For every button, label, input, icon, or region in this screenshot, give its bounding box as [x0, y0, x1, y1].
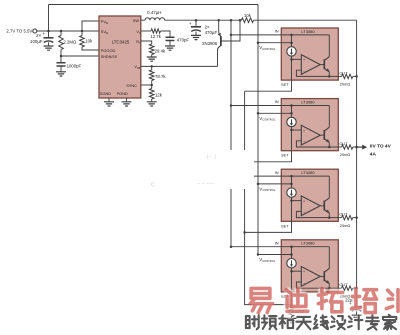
- wire VFB sense line: [141, 65, 218, 67]
- svg-text:LT3080: LT3080: [301, 241, 315, 246]
- wire erased region (white patch): [174, 150, 255, 189]
- svg-text:470µF: 470µF: [205, 30, 218, 35]
- wire SHDN/SS line: [60, 55, 63, 58]
- svg-text:SHDN/SS: SHDN/SS: [101, 55, 118, 59]
- wire IN rail (collector rail): [230, 20, 232, 245]
- wire PGND stub: [126, 98, 128, 102]
- wire VIN input line to IC SVIN: [37, 30, 99, 32]
- svg-text:LT3080: LT3080: [301, 100, 315, 105]
- capacitor C3 2x 470uF boost output: [195, 20, 197, 27]
- wire PVIN jog: [82, 21, 99, 31]
- svg-text:SET: SET: [281, 82, 289, 87]
- resistor R7 10k: [241, 18, 253, 23]
- resistor R5 78.7k divider top: [151, 66, 153, 70]
- wire riser from input node to top rail: [48, 5, 50, 32]
- node divider mid: [150, 84, 153, 87]
- svg-text:IN: IN: [106, 21, 109, 25]
- svg-text:CONTROL: CONTROL: [262, 118, 276, 122]
- wire VC pin line: [141, 30, 151, 32]
- svg-text:SET: SET: [281, 153, 289, 158]
- wire boost line to VOUT rail top: [254, 19, 357, 21]
- node collector rail tap: [230, 19, 233, 22]
- resistor R6 12k divider bottom: [151, 85, 153, 89]
- svg-text:–: –: [303, 281, 305, 285]
- inductor L1 0.47uH: [145, 18, 165, 20]
- ground PGND: [122, 102, 132, 106]
- node output cap junction: [195, 19, 198, 22]
- op-amp U5 LT3080 regulator block: [230, 240, 358, 305]
- label watermark gray 射频和天线设计专家: [246, 315, 259, 329]
- op-amp U3 LT3080 regulator block: [230, 99, 358, 162]
- svg-text:LTC3425: LTC3425: [112, 40, 130, 45]
- ground below C3: [191, 35, 201, 39]
- svg-text:–: –: [303, 69, 305, 73]
- svg-text:OUT: OUT: [339, 212, 348, 217]
- svg-text:C: C: [139, 31, 141, 35]
- transistor Q1 2N3906: [217, 19, 220, 22]
- svg-text:OUT: OUT: [339, 141, 348, 146]
- svg-text:SW: SW: [133, 18, 140, 23]
- resistor R3 12.7k compensation: [151, 29, 160, 33]
- wire output arrow: [357, 146, 363, 148]
- svg-text:PGND: PGND: [117, 91, 128, 96]
- op-amp U1 LTC3425 boost regulator body: [99, 16, 141, 98]
- wire RT pin line: [141, 41, 152, 44]
- ground SGND: [104, 102, 114, 106]
- svg-text:CONTROL: CONTROL: [262, 188, 276, 192]
- ground below R6: [147, 102, 157, 106]
- capacitor C5 22uF output: [352, 306, 362, 308]
- svg-text:SGND: SGND: [100, 91, 111, 96]
- capacitor C2 1000pF soft-start: [60, 56, 62, 63]
- svg-text:LT3080: LT3080: [301, 29, 315, 34]
- svg-text:20mΩ: 20mΩ: [340, 82, 351, 87]
- svg-text:470pF: 470pF: [177, 37, 190, 42]
- node junction input/C1: [47, 30, 50, 33]
- wire top VIN rail: [49, 4, 259, 6]
- svg-text:IN: IN: [106, 31, 109, 35]
- svg-text:+: +: [303, 58, 305, 62]
- ground below C4: [165, 46, 175, 50]
- svg-text:4A: 4A: [370, 152, 377, 158]
- ground below C5: [352, 315, 362, 319]
- svg-text:SYNC: SYNC: [126, 83, 137, 88]
- svg-text:OUT: OUT: [339, 282, 348, 287]
- svg-text:OUT: OUT: [339, 70, 348, 75]
- svg-text:CONTROL: CONTROL: [262, 47, 276, 51]
- svg-text:78.7k: 78.7k: [155, 74, 166, 79]
- label watermark red 易迪拓培训: [250, 288, 272, 312]
- svg-text:2.2MΩ: 2.2MΩ: [63, 40, 77, 45]
- svg-text:12k: 12k: [155, 92, 163, 97]
- svg-text:0.47µH: 0.47µH: [147, 10, 161, 15]
- svg-text:SET: SET: [281, 223, 289, 228]
- capacitor C1 2x 100uF input: [48, 31, 50, 38]
- svg-text:100µF: 100µF: [30, 39, 43, 44]
- svg-text:+: +: [42, 31, 45, 36]
- svg-text:+: +: [303, 270, 305, 274]
- svg-text:IN: IN: [275, 99, 279, 104]
- svg-text:1000pF: 1000pF: [67, 64, 82, 69]
- svg-text:20mΩ: 20mΩ: [340, 152, 351, 157]
- svg-text:–: –: [303, 140, 305, 144]
- svg-text:10k: 10k: [244, 13, 252, 18]
- node SET bus taps: [243, 161, 246, 164]
- resistor R4 29.4k frequency set: [149, 44, 154, 55]
- node output arrow tap: [355, 146, 358, 149]
- svg-text:+: +: [189, 21, 192, 26]
- wire VOUT rail: [356, 20, 358, 306]
- op-amp U4 LT3080 regulator block: [230, 169, 358, 232]
- svg-text:FB: FB: [137, 66, 141, 70]
- svg-text:10k: 10k: [85, 39, 93, 44]
- svg-text:C: C: [151, 183, 155, 189]
- svg-text:-|-- .|: -|-- .|: [205, 154, 216, 160]
- svg-text:2×: 2×: [36, 33, 41, 38]
- svg-text:IN: IN: [275, 170, 279, 175]
- op-amp U2 LT3080 regulator block: [230, 28, 358, 91]
- svg-text:0V TO 4V: 0V TO 4V: [370, 143, 392, 149]
- node VIN input terminal: [33, 29, 37, 33]
- svg-text:29.4k: 29.4k: [155, 49, 166, 54]
- wire boost output line: [165, 19, 242, 21]
- resistor R2 10k PGOOD pull-up: [81, 30, 84, 33]
- wire SYNC pin to divider mid: [141, 84, 152, 86]
- svg-text:LT3080: LT3080: [301, 170, 315, 175]
- svg-text:IN: IN: [275, 29, 279, 34]
- ground below R12: [287, 318, 297, 322]
- svg-text:IN: IN: [275, 240, 279, 245]
- ground below C2: [56, 72, 66, 76]
- capacitor C4 470pF compensation: [166, 37, 175, 40]
- wire VCONTROL rail: [257, 5, 259, 255]
- resistor R1 2.2M soft-start: [60, 30, 63, 33]
- ground below R4: [147, 57, 157, 61]
- svg-text:20mΩ: 20mΩ: [340, 223, 351, 228]
- svg-text:2.7V TO 5.5V: 2.7V TO 5.5V: [6, 29, 32, 34]
- wire SGND stub: [108, 98, 110, 102]
- resistor R12 100k SET resistor: [291, 305, 293, 306]
- svg-text:+: +: [303, 129, 305, 133]
- svg-text:12.7k: 12.7k: [150, 34, 161, 39]
- svg-text:2N3906: 2N3906: [202, 41, 218, 46]
- svg-text:PGOOD: PGOOD: [101, 48, 116, 53]
- svg-text:CONTROL: CONTROL: [262, 259, 276, 263]
- ground below C1: [44, 46, 54, 50]
- wire SET bus: [245, 91, 292, 304]
- wire SW pin to inductor: [141, 19, 145, 21]
- svg-text:-- -- -----: -- -- -----: [197, 181, 215, 187]
- node FB divider top: [150, 65, 153, 68]
- svg-text:–: –: [303, 210, 305, 214]
- svg-text:+: +: [303, 199, 305, 203]
